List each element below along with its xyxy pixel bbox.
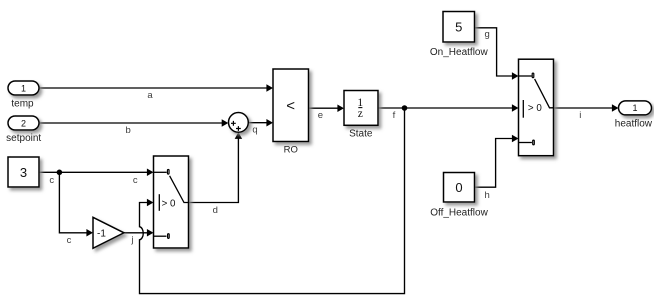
svg-text:q: q bbox=[252, 124, 257, 135]
svg-text:c: c bbox=[133, 175, 138, 186]
svg-text:> 0: > 0 bbox=[528, 103, 542, 114]
svg-text:> 0: > 0 bbox=[162, 199, 176, 210]
svg-text:a: a bbox=[147, 90, 153, 101]
svg-text:setpoint: setpoint bbox=[6, 133, 41, 144]
svg-text:1: 1 bbox=[632, 103, 637, 113]
wire i (switch2 to heatflow outport) bbox=[554, 104, 619, 112]
switch SW1 bbox=[154, 156, 189, 248]
wire b (setpoint to sum) bbox=[39, 119, 228, 127]
wire a (temp to RO) bbox=[39, 84, 273, 92]
svg-text:d: d bbox=[213, 205, 218, 216]
constant 5 (On_Heatflow) bbox=[443, 12, 475, 43]
wire f (State to switch2 mid) bbox=[378, 104, 519, 112]
svg-text:On_Heatflow: On_Heatflow bbox=[430, 47, 489, 58]
switch SW2 bbox=[519, 59, 554, 156]
svg-text:h: h bbox=[485, 190, 490, 201]
svg-text:c: c bbox=[49, 175, 54, 186]
wire c (constant to switch1 top, with branch to gain) bbox=[39, 169, 154, 237]
svg-text:i: i bbox=[579, 110, 581, 121]
svg-text:j: j bbox=[130, 235, 133, 246]
wire q (sum to RO) bbox=[248, 119, 273, 127]
svg-text:z: z bbox=[358, 108, 363, 120]
svg-text:-1: -1 bbox=[97, 229, 106, 240]
svg-text:f: f bbox=[393, 110, 396, 121]
svg-text:e: e bbox=[318, 110, 323, 121]
wire h (Off_Heatflow to switch2 bottom) bbox=[475, 135, 519, 187]
sum S1 bbox=[229, 113, 249, 133]
unit delay State bbox=[344, 91, 378, 126]
svg-text:5: 5 bbox=[455, 20, 462, 35]
svg-text:c: c bbox=[67, 235, 72, 246]
svg-text:RO: RO bbox=[284, 144, 298, 155]
wire g (On_Heatflow to switch2 top) bbox=[475, 28, 519, 80]
svg-text:g: g bbox=[484, 29, 489, 40]
wire j (gain to switch1 bottom) bbox=[124, 229, 154, 237]
relational operator RO bbox=[273, 69, 309, 142]
svg-text:Off_Heatflow: Off_Heatflow bbox=[430, 208, 488, 219]
svg-text:heatflow: heatflow bbox=[615, 118, 653, 129]
constant 3 bbox=[8, 157, 39, 187]
svg-text:2: 2 bbox=[21, 118, 26, 128]
svg-text:b: b bbox=[125, 125, 130, 136]
junction node f bbox=[402, 105, 408, 111]
svg-text:3: 3 bbox=[20, 165, 27, 180]
constant 0 (Off_Heatflow) bbox=[444, 173, 475, 203]
wire feedback (f down, left, up with hop, into switch1 mid) bbox=[140, 108, 405, 294]
inport 1 (temp) bbox=[8, 81, 39, 95]
wire d (switch1 out to sum bottom) bbox=[189, 132, 243, 202]
svg-text:1: 1 bbox=[21, 83, 26, 93]
wire e (RO to State) bbox=[309, 104, 345, 112]
svg-text:State: State bbox=[349, 129, 373, 140]
svg-text:temp: temp bbox=[11, 98, 34, 109]
svg-text:0: 0 bbox=[455, 180, 462, 195]
svg-text:<: < bbox=[286, 98, 295, 115]
gain -1 bbox=[93, 217, 124, 248]
inport 2 (setpoint) bbox=[8, 116, 39, 130]
junction node c bbox=[57, 170, 63, 176]
outport 1 (heatflow) bbox=[619, 101, 652, 115]
